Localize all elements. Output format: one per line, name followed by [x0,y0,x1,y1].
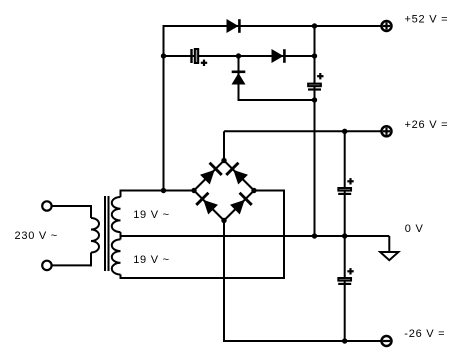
capacitor C4 (polarized, -26 V filter) [338,268,354,284]
wire secondary bottom lead [121,277,285,279]
node bridge bottom corner [221,218,226,223]
label 230 V ~ [15,230,58,242]
wire bridge bottom to -26 rail [223,221,225,342]
wire +26 V rail [224,130,381,132]
diode D1 (+52 V rail) [227,19,240,33]
terminal +26 V output [382,126,392,136]
transformer core [105,196,109,271]
wire second row (C1/D2 row) [164,55,315,57]
label +52 V = [405,13,449,25]
diode D3 (clamp, pointing up) [232,72,246,85]
diode D2 (second row) [272,49,285,63]
node junction middle vertical / 0 V rail [312,233,317,238]
terminal +52 V output [382,21,392,31]
node junction +26 rail / cap vertical [342,129,347,134]
label -26 V = [404,328,445,340]
diode bridge D4 (left-top edge) [200,163,222,185]
label +26 V = [405,119,449,131]
node bridge top corner [221,158,226,163]
svg-text:-26 V =: -26 V = [404,328,445,340]
svg-text:+26 V =: +26 V = [405,119,449,131]
wire bridge right corner to right vertical [254,190,284,280]
diode bridge D5 (right-top edge) [226,163,248,185]
label 0 V [405,223,424,235]
ground [380,252,398,260]
node junction D3 branch [236,53,241,58]
wire 0 V rail (centre tap to ground) [121,236,390,252]
label 19 V ~ (lower) [133,254,170,266]
label 19 V ~ (upper) [133,209,170,221]
wire filter-cap vertical (+26 to -26) [344,131,346,341]
inductor transformer primary winding [91,218,99,253]
wire -26 V rail [223,340,381,342]
wire D3 branch vertical [238,56,240,100]
wire primary top lead [52,205,91,218]
node bridge right corner [251,188,256,193]
svg-text:230 V ~: 230 V ~ [15,230,58,242]
wire primary bottom lead [52,253,91,267]
inductor transformer secondary winding 2 (19 V) [112,236,121,279]
svg-text:0 V: 0 V [405,223,424,235]
terminal -26 V output [382,336,392,346]
node junction top rail / middle vertical [312,23,317,28]
terminal primary bottom [42,261,51,270]
svg-text:19 V ~: 19 V ~ [133,254,170,266]
terminal primary top [42,201,51,210]
node junction left bus / second row [161,53,166,58]
node junction 0 V rail / cap vertical [342,233,347,238]
capacitor C1 (polarized, second row) [192,49,208,66]
wire +52 V rail (top row) [164,25,381,27]
node junction return row / middle vertical [312,97,317,102]
wire secondary top lead [121,190,195,192]
node junction -26 rail / cap vertical [342,338,347,343]
svg-text:19 V ~: 19 V ~ [133,209,170,221]
node bridge left corner [191,188,196,193]
wire bridge top to +26 rail [223,131,225,160]
diode bridge D6 (bottom-left edge) [196,193,218,215]
capacitor C2 (polarized, top rail filter) [308,73,324,90]
capacitor C3 (polarized, +26 V filter) [338,178,354,194]
node junction left bus / secondary top [161,188,166,193]
wire left vertical bus [163,25,165,191]
svg-text:+52 V =: +52 V = [405,13,449,25]
wire middle vertical (top rail to 0 V) [314,26,316,236]
wire bridge rectifier diamond [194,161,254,221]
inductor transformer secondary winding 1 (19 V) [112,190,121,237]
node junction second row / middle vertical [312,53,317,58]
diode bridge D7 (bottom-right edge) [230,193,252,215]
wire D3 return row [238,99,315,101]
